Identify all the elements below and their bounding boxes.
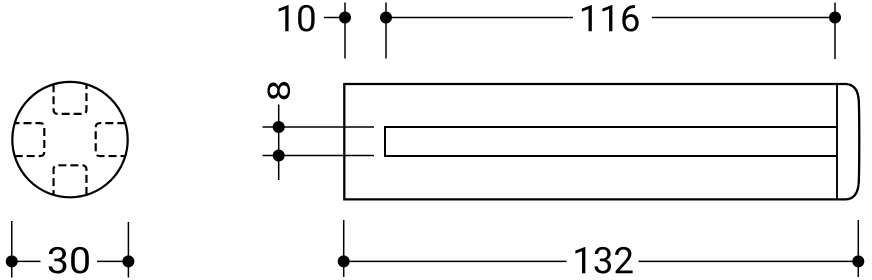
dimension 8 leader line to slot bottom — [263, 155, 375, 157]
bottom notch (dashed groove) — [54, 165, 87, 195]
dimension 116 dot at slot start — [380, 12, 392, 24]
extension line at circle right (30 dim) — [127, 222, 129, 278]
dimension 30 dot left — [6, 255, 18, 267]
cap tangent line — [836, 84, 838, 199]
dimension 132 label — [575, 247, 632, 274]
dimension 8 label (rotated) — [267, 82, 290, 99]
top notch (dashed groove) — [54, 84, 87, 114]
extension line at body left (bottom dim) — [343, 220, 345, 277]
dimension 8 dot at slot bottom — [273, 150, 285, 162]
dimension 30 line left segment — [12, 260, 41, 262]
dimension 8 leader line to slot top — [263, 126, 375, 128]
right notch (dashed groove) — [96, 123, 126, 156]
cross-section circle — [12, 82, 127, 197]
dimension 132 line left segment — [344, 260, 567, 262]
dimension 10 line — [324, 17, 339, 19]
dimension 132 dot right — [852, 255, 864, 267]
dimension 116 line right segment — [652, 17, 835, 19]
extension line at slot start (top dim) — [385, 3, 387, 59]
dimension 30 label — [49, 247, 89, 274]
extension line at slot end (top dim) — [834, 3, 836, 60]
extension line at circle left (30 dim) — [11, 221, 13, 278]
left notch (dashed groove) — [15, 123, 45, 156]
dimension 116 label — [582, 5, 639, 31]
dimension 10 label — [279, 5, 315, 32]
slot (groove) in side view — [385, 127, 837, 156]
dimension 116 line left segment — [386, 17, 573, 19]
dimension 132 line right segment — [639, 260, 859, 262]
dimension 30 dot right — [122, 255, 134, 267]
body outline (side view) — [344, 84, 859, 199]
dimension 132 dot left — [338, 255, 350, 267]
dimension 10 dot at body edge — [339, 12, 351, 24]
extension line at body left (top dim) — [344, 3, 346, 59]
dimension 8 extension line — [278, 105, 280, 181]
dimension 116 dot at slot end — [829, 12, 841, 24]
dimension 30 line right segment — [97, 260, 128, 262]
extension line at body right (bottom dim) — [857, 220, 859, 277]
dimension 8 dot at slot top — [273, 121, 285, 133]
